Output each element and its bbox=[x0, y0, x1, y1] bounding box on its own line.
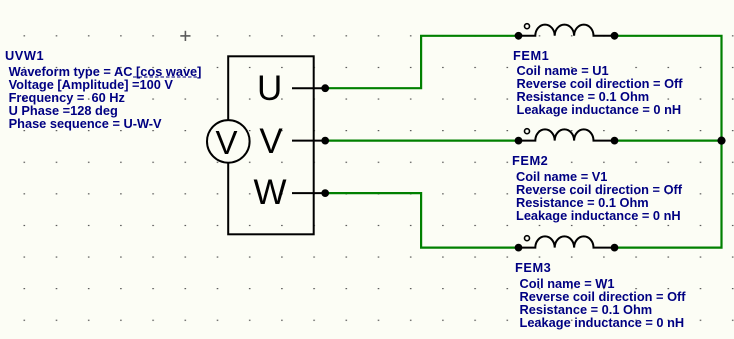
node right rail junction dot bbox=[717, 137, 725, 145]
inductor FEM3 coil bbox=[519, 236, 615, 247]
component label UVW1 bbox=[5, 49, 44, 62]
node FEM3 right dot bbox=[611, 244, 619, 252]
wire V terminal to FEM2 coil (green) bbox=[325, 140, 518, 142]
wire W terminal to FEM3 coil (green) bbox=[325, 193, 518, 248]
node FEM1 right dot bbox=[611, 32, 619, 40]
wire FEM3 output to right rail (green) bbox=[615, 141, 722, 248]
node U terminal dot bbox=[321, 84, 329, 92]
node FEM2 left dot bbox=[515, 137, 523, 145]
voltage source UVW1 box bbox=[228, 56, 314, 234]
terminal stub W bbox=[292, 192, 325, 194]
node FEM2 right dot bbox=[611, 137, 619, 145]
node W terminal dot bbox=[321, 189, 329, 197]
component label FEM3 bbox=[515, 261, 551, 274]
node V terminal dot bbox=[321, 137, 329, 145]
inductor FEM1 coil bbox=[519, 25, 615, 36]
FEM2 properties text bbox=[516, 170, 682, 222]
terminal label U bbox=[257, 71, 282, 106]
FEM1 polarity circle bbox=[525, 24, 530, 29]
voltmeter circle of UVW1 bbox=[207, 120, 250, 163]
wire FEM1 output to right rail (green) bbox=[615, 36, 722, 141]
wire U terminal to corner (green) bbox=[325, 36, 518, 88]
origin marker + bbox=[180, 31, 190, 41]
terminal label V bbox=[259, 124, 282, 159]
underline under cos wave bbox=[133, 76, 198, 78]
FEM1 properties text bbox=[517, 64, 683, 116]
terminal stub V bbox=[292, 140, 325, 142]
component label FEM1 bbox=[513, 49, 549, 62]
FEM3 properties text bbox=[520, 277, 686, 329]
FEM3 polarity circle bbox=[525, 236, 530, 241]
FEM2 polarity circle bbox=[525, 129, 530, 134]
node FEM1 left dot bbox=[515, 32, 523, 40]
UVW1 properties text bbox=[9, 65, 202, 130]
node FEM3 left dot bbox=[515, 244, 523, 252]
terminal stub U bbox=[292, 87, 325, 89]
terminal label W bbox=[254, 175, 287, 210]
inductor FEM2 coil bbox=[519, 129, 615, 140]
wire FEM2 output to right rail (green) bbox=[615, 140, 722, 142]
voltmeter label V bbox=[216, 126, 238, 159]
component label FEM2 bbox=[512, 154, 548, 167]
